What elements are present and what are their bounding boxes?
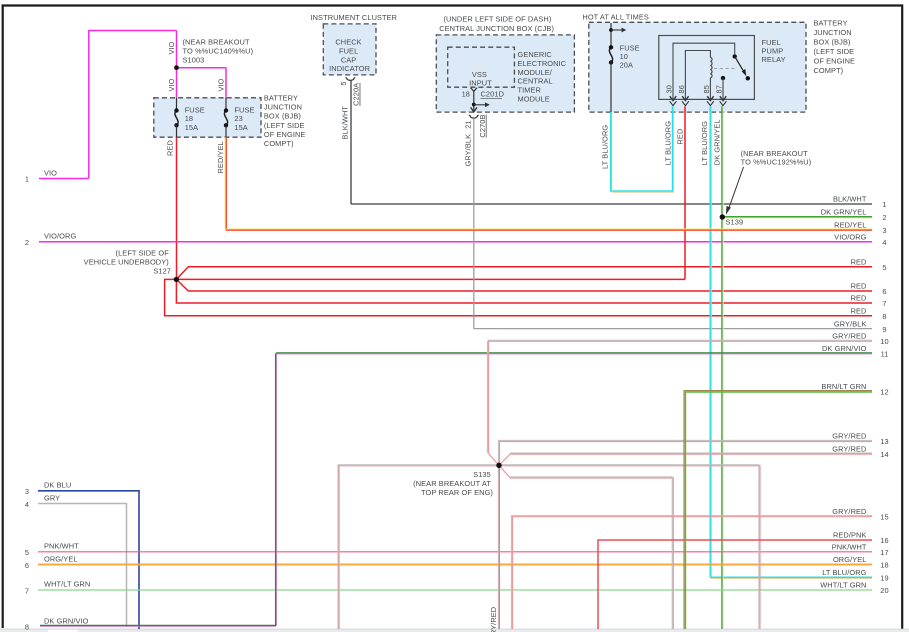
svg-text:(NEAR BREAKOUT TO %%UC192%%U): (NEAR BREAKOUT TO %%UC192%%U)	[741, 149, 812, 167]
relay pin arrow at x=723	[720, 96, 726, 100]
relay switch common contact dot	[733, 54, 737, 58]
wire GRY/RED S135 branch left down	[338, 465, 499, 629]
svg-text:2: 2	[882, 213, 886, 222]
pin 18 male connector V	[471, 88, 477, 92]
wire inside BJB to fuse 18	[176, 98, 178, 111]
svg-text:RED/YEL: RED/YEL	[216, 141, 225, 173]
svg-text:21: 21	[463, 120, 472, 128]
svg-text:3: 3	[882, 226, 886, 235]
svg-text:VIO: VIO	[216, 78, 225, 91]
svg-text:VIO/ORG: VIO/ORG	[834, 233, 866, 242]
splice S1003	[174, 65, 179, 70]
svg-text:7: 7	[25, 587, 29, 596]
svg-text:GRY/RED: GRY/RED	[832, 444, 866, 453]
pin 18 wire arrow at CJB edge	[471, 107, 477, 111]
svg-text:C220A: C220A	[352, 83, 361, 106]
svg-text:GRY/RED: GRY/RED	[489, 607, 498, 632]
wire VIO branch S1003 to fuse 23	[177, 67, 227, 69]
svg-text:FUEL PUMP RELAY: FUEL PUMP RELAY	[762, 38, 786, 64]
wire BLK/WHT instrument cluster down	[350, 80, 352, 204]
wire GRY/RED S135 lower branch down	[510, 477, 674, 629]
svg-text:GRY/RED: GRY/RED	[832, 432, 866, 441]
wire below fuse 18	[176, 125, 178, 137]
wire GRY/RED to right row 10	[488, 340, 872, 341]
relay pin arrow at x=710.4	[707, 96, 713, 100]
wire GRY/BLK CJB down	[473, 118, 475, 328]
svg-text:3: 3	[25, 487, 29, 496]
central junction box CJB	[436, 35, 574, 112]
wire RED S127 to right row 5	[176, 267, 872, 280]
wire VIO down to splice S1003	[176, 31, 178, 68]
svg-text:19: 19	[880, 574, 888, 583]
wire DK GRN/YEL S139 to right row 2	[722, 217, 872, 218]
svg-text:12: 12	[880, 388, 888, 397]
svg-text:DK GRN/VIO: DK GRN/VIO	[44, 616, 89, 625]
wire VIO drop to fuse 18	[176, 68, 178, 98]
splice S127	[174, 277, 179, 282]
svg-text:5: 5	[339, 81, 348, 85]
svg-text:6: 6	[25, 561, 29, 570]
svg-text:14: 14	[880, 450, 888, 459]
svg-text:DK BLU: DK BLU	[44, 481, 71, 490]
relay coil	[710, 57, 712, 77]
svg-text:8: 8	[882, 312, 886, 321]
svg-text:GRY: GRY	[44, 494, 60, 503]
svg-text:RED: RED	[675, 129, 684, 145]
wire 5 PNK/WHT across page (right row 17)	[38, 551, 872, 553]
connector C270B symbol	[469, 115, 479, 118]
wire 1 VIO horizontal from left terminal	[39, 178, 89, 180]
wire 3 DK BLU	[38, 491, 139, 629]
svg-text:7: 7	[882, 299, 886, 308]
relay switch blade with arrow	[735, 56, 747, 76]
svg-text:85: 85	[702, 85, 711, 93]
svg-text:C270B: C270B	[478, 115, 487, 138]
svg-text:ORG/YEL: ORG/YEL	[44, 554, 78, 563]
splice S135	[496, 463, 501, 468]
wire DK GRN/VIO riser	[276, 353, 277, 626]
svg-text:RED: RED	[851, 306, 867, 315]
svg-text:6: 6	[882, 287, 886, 296]
svg-text:RED: RED	[165, 140, 174, 156]
relay pin arrow at x=685.4	[682, 96, 688, 100]
connector chevron at x=673	[670, 101, 677, 105]
svg-text:GRY/RED: GRY/RED	[832, 507, 866, 516]
svg-text:GRY/RED: GRY/RED	[832, 332, 866, 341]
svg-text:LT BLU/ORG: LT BLU/ORG	[822, 568, 866, 577]
svg-text:4: 4	[882, 238, 886, 247]
svg-text:LT BLU/ORG: LT BLU/ORG	[700, 121, 709, 165]
wire LT BLU/ORG to right row 19	[711, 577, 873, 578]
svg-text:VSS INPUT: VSS INPUT	[469, 70, 492, 88]
wire RED S127 to right row 8	[165, 279, 872, 315]
svg-text:(UNDER LEFT SIDE OF DASH): (UNDER LEFT SIDE OF DASH)	[444, 15, 552, 24]
wire RED relay pin 86 down to S127 feed	[684, 106, 686, 279]
splice S139	[720, 214, 725, 219]
svg-text:BLK/WHT: BLK/WHT	[833, 195, 867, 204]
svg-text:15: 15	[880, 512, 888, 521]
svg-text:DK GRN/YEL: DK GRN/YEL	[821, 208, 867, 217]
svg-text:20: 20	[880, 586, 888, 595]
battery junction box BJB (right)	[589, 22, 806, 112]
wire 8 DK GRN/VIO bottom	[40, 625, 276, 626]
connector chevron at x=710.4	[707, 101, 714, 105]
wire 4 GRY	[38, 504, 127, 628]
svg-text:DK GRN/YEL: DK GRN/YEL	[713, 119, 722, 165]
svg-text:VIO/ORG: VIO/ORG	[44, 232, 76, 241]
svg-text:30: 30	[665, 85, 674, 93]
svg-text:DK GRN/VIO: DK GRN/VIO	[822, 344, 867, 353]
wire GRY/BLK to right row 9	[474, 328, 872, 330]
fuse 10 20A	[609, 45, 613, 65]
relay internal: pin 30 to switch common	[673, 43, 735, 99]
svg-text:VIO: VIO	[44, 169, 57, 178]
svg-text:LT BLU/ORG: LT BLU/ORG	[663, 121, 672, 165]
wire VIO riser to top	[89, 31, 177, 179]
svg-text:17: 17	[880, 548, 888, 557]
svg-text:RED/PNK: RED/PNK	[833, 531, 867, 540]
wire RED/PNK right row 16 with drop	[598, 540, 872, 629]
relay internal dashed actuator link	[714, 68, 737, 70]
svg-text:BLK/WHT: BLK/WHT	[340, 106, 349, 140]
svg-text:18: 18	[462, 90, 470, 99]
svg-text:INSTRUMENT CLUSTER: INSTRUMENT CLUSTER	[310, 13, 397, 22]
battery junction box BJB (left, fuse box)	[154, 98, 261, 137]
svg-text:RED: RED	[851, 294, 867, 303]
wire RED/YEL to right row 3	[226, 229, 872, 230]
relay internal: pin 86 to coil top	[685, 51, 710, 100]
svg-text:87: 87	[715, 85, 724, 93]
svg-text:S139: S139	[726, 218, 744, 227]
connector chevron at x=723	[720, 101, 727, 105]
svg-text:WHT/LT GRN: WHT/LT GRN	[820, 581, 866, 590]
fuel pump relay box	[659, 36, 755, 100]
wire GRY/RED to right row 14	[510, 453, 872, 454]
hot feed arrow right	[611, 28, 626, 33]
bottom scroll strip	[0, 629, 909, 632]
svg-text:CENTRAL JUNCTION BOX (CJB): CENTRAL JUNCTION BOX (CJB)	[439, 24, 554, 33]
svg-text:8: 8	[25, 622, 29, 631]
wire 2 VIO/ORG across page (right row 4)	[39, 241, 872, 243]
svg-text:11: 11	[881, 350, 889, 359]
svg-text:13: 13	[880, 437, 888, 446]
feed wire to fuse 10	[610, 23, 612, 47]
svg-text:HOT AT ALL TIMES: HOT AT ALL TIMES	[582, 12, 649, 21]
inner box VSS INPUT	[448, 47, 515, 87]
wire BLK/WHT to right row 1	[351, 203, 872, 205]
wire BRN/LT GRN right row 12 with drop	[684, 391, 872, 629]
svg-text:PNK/WHT: PNK/WHT	[832, 543, 867, 552]
wire RED S127 to right row 7	[176, 279, 872, 303]
relay NO contact dot	[746, 76, 750, 80]
wire GRY/RED S135 diagonal to row 14	[499, 454, 511, 466]
svg-text:16: 16	[880, 536, 888, 545]
wire 7 WHT/LT GRN across page (right row 20)	[38, 589, 872, 591]
wire inside BJB to fuse 23	[225, 98, 227, 111]
svg-text:WHT/LT GRN: WHT/LT GRN	[44, 580, 90, 589]
svg-text:BRN/LT GRN: BRN/LT GRN	[821, 382, 866, 391]
svg-text:10: 10	[880, 337, 888, 346]
svg-text:VIO: VIO	[167, 78, 176, 91]
wire GRY/RED right row 15 with drop	[511, 516, 872, 629]
wire below fuse 23	[225, 125, 227, 137]
connector C220A symbol	[346, 78, 356, 81]
fuse 23 15A	[224, 108, 228, 127]
arrow to the right from VSS wire	[474, 102, 490, 107]
svg-text:2: 2	[25, 238, 29, 247]
wire GRY/RED S135 branch right down	[499, 465, 760, 629]
svg-text:RED: RED	[851, 257, 867, 266]
svg-text:5: 5	[882, 263, 886, 272]
wire RED S127 to fuel pump relay pin 86	[176, 278, 685, 280]
wire LT BLU/ORG relay pin 85 down	[710, 106, 711, 577]
svg-text:C201D: C201D	[481, 90, 505, 99]
relay internal: pin 87 wire	[722, 78, 724, 99]
svg-text:1: 1	[25, 175, 29, 184]
wire GRY/RED diagonal into S135	[488, 453, 499, 466]
svg-text:1: 1	[882, 200, 886, 209]
wire GRY/RED S135 diagonal to lower branch	[499, 465, 510, 477]
wire RED fuse 18 to splice S127	[176, 137, 178, 279]
relay pin arrow at x=673	[670, 96, 676, 100]
svg-text:5: 5	[25, 548, 29, 557]
wire GRY/RED S135 straight down	[498, 465, 499, 629]
svg-text:RED/YEL: RED/YEL	[834, 221, 866, 230]
svg-text:9: 9	[882, 325, 886, 334]
wire LT BLU/ORG fuse 10 to relay pin 30	[611, 106, 674, 192]
svg-text:GRY/BLK: GRY/BLK	[834, 319, 867, 328]
svg-text:LT BLU/ORG: LT BLU/ORG	[601, 125, 610, 169]
svg-text:PNK/WHT: PNK/WHT	[44, 542, 79, 551]
wire GRY/RED S135 riser to right row 13	[498, 440, 872, 465]
connector chevron at x=685.4	[682, 101, 689, 105]
svg-text:GRY/BLK: GRY/BLK	[463, 134, 472, 167]
instrument cluster check fuel cap indicator box	[323, 24, 376, 75]
relay pin 87 contact dot	[721, 76, 725, 80]
leader arrow to S139	[726, 167, 744, 215]
wire DK GRN/VIO to right row 11	[276, 353, 872, 354]
svg-text:18: 18	[880, 561, 888, 570]
fuse 18 15A	[174, 108, 178, 127]
wire DK GRN/YEL relay pin 87 down full page	[722, 106, 723, 629]
wire 6 ORG/YEL across page (right row 18)	[38, 564, 872, 566]
wire VIO drop to fuse 23	[225, 68, 227, 98]
svg-text:VIO: VIO	[167, 41, 176, 54]
wire pin 18 down inside CJB	[473, 91, 475, 112]
relay internal: coil bottom to pin 85	[709, 78, 711, 100]
wire GRY/RED row 10 drop to S135	[487, 341, 488, 453]
wire RED S127 to right row 6	[176, 279, 872, 291]
junction dot on VSS wire	[472, 103, 476, 107]
hot feed dot	[609, 28, 613, 32]
svg-text:4: 4	[25, 500, 29, 509]
wire below fuse 10	[610, 63, 612, 113]
svg-text:ORG/YEL: ORG/YEL	[833, 555, 867, 564]
wire RED/YEL fuse 23 down	[225, 137, 226, 230]
svg-text:86: 86	[677, 85, 686, 93]
svg-text:RED: RED	[851, 282, 867, 291]
